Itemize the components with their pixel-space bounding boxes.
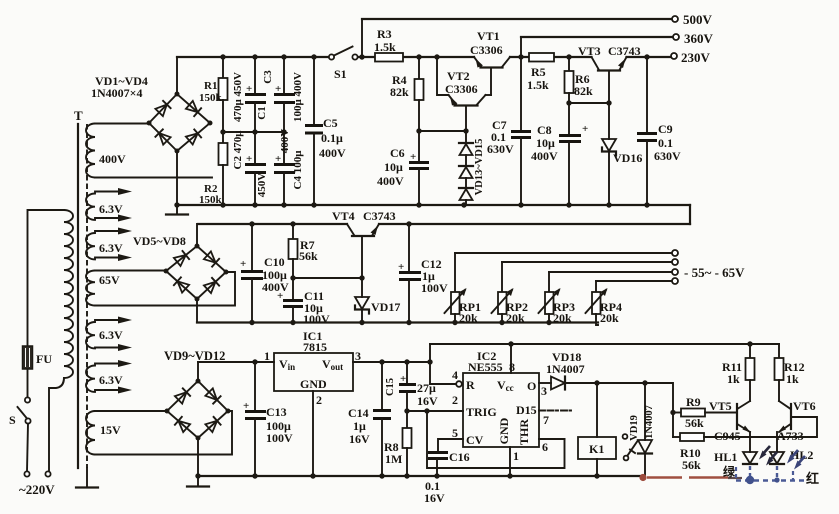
svg-text:C3306: C3306 (470, 43, 503, 57)
svg-text:6.3V: 6.3V (99, 328, 123, 342)
svg-text:+: + (400, 373, 406, 385)
svg-text:400V: 400V (377, 174, 404, 188)
wire bridge2 bottom to mid rail (196, 299, 198, 323)
svg-text:20k: 20k (553, 311, 572, 325)
bias output terminals (672, 250, 678, 284)
svg-text:1M: 1M (385, 452, 402, 466)
pin2 label and GND lead (313, 391, 322, 476)
svg-text:绿: 绿 (723, 464, 736, 479)
capacitor C11 10u100V (277, 278, 330, 326)
pin6 stub (539, 439, 565, 454)
svg-text:150k: 150k (199, 194, 223, 206)
svg-text:C10: C10 (264, 255, 285, 269)
mid tie rail (220, 129, 286, 134)
switch S1 (329, 47, 358, 82)
wire bridge top to HT rail (176, 57, 178, 94)
pin3 label (355, 349, 361, 363)
svg-text:7815: 7815 (303, 340, 327, 354)
resistor R3 1.5k (374, 27, 403, 62)
svg-text:1μ: 1μ (353, 419, 366, 433)
label -55~-65V (684, 265, 745, 280)
transformer core left bar (77, 124, 79, 468)
svg-text:+: + (410, 151, 416, 163)
svg-text:56k: 56k (685, 416, 704, 430)
svg-text:VT4: VT4 (332, 209, 355, 223)
potentiometer RP3 20k (539, 272, 576, 325)
winding 15V (86, 411, 232, 455)
svg-text:C14: C14 (348, 406, 369, 420)
core ground bar (76, 468, 98, 488)
pin5 CV lead (438, 426, 463, 452)
capacitor C6 10u400V (377, 131, 429, 205)
resistor R4 82k (390, 57, 424, 131)
resistor R5 1.5k (527, 53, 554, 92)
ground (bottom section) (187, 476, 209, 487)
HT rail y57 (177, 56, 671, 58)
base bias wire R6-VT3 (566, 100, 611, 105)
mains terminal right (45, 471, 50, 476)
svg-text:C6: C6 (390, 146, 405, 160)
svg-text:VT1: VT1 (477, 29, 500, 43)
transistor VT4 C3743 (332, 209, 396, 278)
360V rail riser (520, 37, 522, 57)
red character green label (723, 464, 736, 479)
svg-text:- 55~ - 65V: - 55~ - 65V (684, 265, 745, 280)
winding 65V (86, 271, 235, 306)
pin8 lead (509, 344, 515, 374)
capacitor C12 1u100V (398, 224, 448, 323)
transformer T label (74, 108, 83, 123)
mid bottom rail y322.5 (197, 320, 598, 325)
bridge rectifier VD9~VD12 (165, 379, 231, 441)
svg-text:K1: K1 (589, 442, 604, 456)
mid positive rail y224 (198, 221, 690, 226)
svg-text:O: O (527, 379, 536, 393)
bridge rectifier VD5~VD8 (164, 244, 229, 302)
ground (top section) (166, 205, 188, 215)
capacitor C9 0.1 630V (637, 57, 681, 205)
svg-text:150k: 150k (199, 92, 223, 104)
svg-text:16V: 16V (424, 491, 445, 505)
svg-text:+: + (240, 258, 246, 270)
svg-text:630V: 630V (487, 142, 514, 156)
svg-text:Vin: Vin (279, 357, 295, 372)
svg-text:~220V: ~220V (19, 482, 55, 497)
wire bridge2 top riser (197, 224, 198, 246)
transistor VT1 C3306 (470, 29, 510, 95)
svg-text:+: + (275, 153, 281, 165)
svg-text:1k: 1k (727, 372, 740, 386)
svg-text:C9: C9 (658, 122, 673, 136)
negative rail y205 (177, 204, 690, 206)
svg-text:1N4007×4: 1N4007×4 (91, 86, 143, 100)
svg-text:630V: 630V (654, 149, 681, 163)
svg-text:82k: 82k (390, 85, 409, 99)
svg-text:Vcc: Vcc (497, 378, 514, 393)
terminal 230V (671, 50, 711, 65)
svg-text:450V: 450V (256, 173, 268, 198)
C1 rotated labels (232, 72, 268, 122)
wire to IC1 input (198, 359, 274, 364)
svg-text:C8: C8 (537, 123, 552, 137)
LED HL1 (714, 432, 757, 464)
svg-text:82k: 82k (574, 84, 593, 98)
svg-text:20k: 20k (506, 311, 525, 325)
winding 400V (86, 124, 212, 178)
resistor R1 150k (199, 57, 228, 132)
svg-text:400V: 400V (99, 152, 126, 166)
capacitor C2 470u450V (245, 132, 266, 205)
pin3 output label (541, 384, 547, 398)
capacitor C10 100u400V (240, 224, 289, 323)
zener VD16 (602, 103, 642, 205)
THR-TRIG link wire (427, 411, 565, 468)
label ~220V (19, 482, 55, 497)
capacitor C7 0.1 630V (487, 57, 531, 205)
wire primary top to fuse (28, 210, 65, 346)
fuse FU (23, 346, 53, 369)
RP output wires (455, 253, 672, 281)
svg-text:VT6: VT6 (793, 399, 816, 413)
svg-text:C4 100μ: C4 100μ (292, 150, 304, 190)
svg-text:VD16: VD16 (613, 151, 642, 165)
svg-text:GND: GND (497, 417, 511, 444)
red junction node (639, 474, 646, 481)
svg-text:1N4007: 1N4007 (546, 362, 585, 376)
capacitor C3 100u400V (274, 57, 295, 132)
LED light arrows HL2 (787, 450, 805, 470)
svg-text:C1: C1 (256, 106, 268, 119)
switch S (9, 397, 31, 427)
svg-text:A733: A733 (777, 429, 804, 443)
svg-text:1: 1 (513, 449, 519, 463)
svg-text:10μ: 10μ (536, 136, 555, 150)
svg-text:1.5k: 1.5k (527, 78, 549, 92)
winding 6.3V #1 (86, 188, 132, 222)
label VD5~VD8 (133, 234, 186, 248)
svg-text:100μ 400V: 100μ 400V (292, 72, 304, 122)
svg-text:+: + (246, 153, 252, 165)
svg-text:230V: 230V (681, 50, 711, 65)
wire bridge bottom to negative rail (176, 151, 178, 205)
svg-text:VD17: VD17 (371, 300, 400, 314)
svg-text:T: T (74, 108, 83, 123)
regulator IC1 7815 (274, 329, 353, 391)
bridge rectifier VD1~VD4 (147, 92, 213, 154)
svg-text:400V: 400V (262, 280, 289, 294)
svg-text:C945: C945 (714, 429, 741, 443)
svg-text:16V: 16V (349, 432, 370, 446)
wire bridge3 top riser (197, 362, 199, 381)
pin2 TRIG wire (404, 393, 463, 414)
VT2 collector loop (437, 57, 491, 95)
svg-text:VD13~VD15: VD13~VD15 (474, 139, 485, 196)
diodes VD13~VD15 (459, 131, 473, 205)
red character red label (806, 471, 819, 486)
svg-text:3: 3 (541, 384, 547, 398)
svg-text:20k: 20k (459, 311, 478, 325)
svg-text:65V: 65V (99, 273, 120, 287)
svg-text:C2 470μ: C2 470μ (232, 130, 244, 170)
svg-text:NE555: NE555 (468, 360, 503, 374)
blue dashed LED ground marks (736, 466, 806, 484)
resistor R6 82k (565, 57, 594, 103)
svg-text:6.3V: 6.3V (99, 241, 123, 255)
LED light arrows HL1 (759, 446, 777, 466)
C3 rotated labels (262, 70, 304, 122)
transistor VT6 A733 (777, 399, 816, 443)
svg-text:HL1: HL1 (714, 450, 737, 464)
svg-text:VD9~VD12: VD9~VD12 (164, 349, 225, 363)
svg-text:+: + (246, 83, 252, 95)
500V rail riser (361, 19, 363, 57)
svg-text:VD19: VD19 (629, 415, 640, 441)
svg-text:R3: R3 (377, 27, 392, 41)
500V rail (362, 18, 671, 20)
svg-text:1k: 1k (786, 372, 799, 386)
wire fuse to switch (27, 369, 29, 397)
potentiometer RP1 20k (445, 253, 482, 325)
winding 6.3V #3 (86, 317, 132, 352)
svg-text:C3743: C3743 (608, 44, 641, 58)
wire primary bottom to right terminal (49, 378, 64, 471)
svg-text:VT2: VT2 (447, 69, 470, 83)
svg-text:6.3V: 6.3V (99, 202, 123, 216)
transformer core right bar (dashed) (86, 124, 88, 468)
svg-text:+: + (398, 261, 404, 273)
svg-text:8: 8 (509, 360, 515, 374)
diode VD18 1N4007 (539, 350, 597, 390)
svg-text:400V: 400V (319, 146, 346, 160)
svg-text:7: 7 (543, 413, 549, 427)
svg-text:500V: 500V (683, 12, 713, 27)
capacitor C5 0.1u400V (305, 57, 346, 205)
svg-text:56k: 56k (682, 458, 701, 472)
svg-text:C13: C13 (266, 405, 287, 419)
capacitor C13 100u100V (243, 362, 293, 476)
svg-text:C5: C5 (323, 116, 338, 130)
svg-text:C15: C15 (385, 378, 396, 396)
svg-text:6: 6 (542, 440, 548, 454)
svg-text:S1: S1 (334, 67, 347, 81)
svg-text:GND: GND (300, 377, 327, 391)
VD13~VD15 rotated label (474, 139, 485, 196)
svg-text:470μ 450V: 470μ 450V (232, 72, 244, 122)
360V rail (521, 36, 672, 38)
terminal 360V (673, 31, 714, 46)
transistor VT3 C3743 (578, 44, 641, 103)
svg-text:S: S (9, 413, 16, 427)
primary winding coil (64, 210, 73, 378)
capacitor C8 10u400V (531, 103, 588, 205)
C4 rotated labels (279, 129, 304, 190)
svg-text:400V: 400V (279, 129, 291, 154)
svg-text:R: R (466, 378, 475, 392)
relay contact (623, 434, 638, 460)
svg-text:15V: 15V (100, 423, 121, 437)
svg-text:C3306: C3306 (445, 82, 478, 96)
label VD9~VD12 (164, 349, 225, 363)
svg-text:10μ: 10μ (384, 160, 403, 174)
svg-text:3: 3 (355, 349, 361, 363)
svg-text:56k: 56k (299, 249, 318, 263)
capacitor C16 0.1 16V (424, 450, 470, 505)
pin1 label (264, 349, 270, 363)
transistor VT2 C3306 (445, 69, 486, 131)
svg-text:1.5k: 1.5k (374, 40, 396, 54)
Vcc wire to pins 8/4 (430, 341, 779, 384)
svg-text:R5: R5 (531, 65, 546, 79)
svg-text:D15: D15 (516, 403, 537, 417)
svg-text:TRIG: TRIG (466, 405, 497, 419)
svg-text:FU: FU (36, 352, 52, 366)
svg-text:360V: 360V (684, 31, 714, 46)
+15V wire from Vout (353, 359, 433, 364)
resistor R11 1k (722, 344, 755, 401)
svg-text:+: + (243, 400, 249, 412)
zener VD17 (355, 278, 400, 323)
svg-text:1N4007: 1N4007 (644, 405, 655, 439)
svg-text:20k: 20k (600, 311, 619, 325)
terminal 500V (672, 12, 713, 27)
rails right-end link (689, 205, 691, 224)
svg-text:100V: 100V (421, 281, 448, 295)
svg-text:+: + (275, 83, 281, 95)
diode VD19 1N4007 (629, 383, 655, 477)
svg-text:R1: R1 (204, 80, 217, 92)
output node wire (594, 380, 675, 437)
pin7 stub (539, 411, 571, 428)
label VD1~VD4 1N4007x4 (91, 74, 148, 100)
node dots on rails (174, 54, 649, 207)
svg-text:+: + (277, 290, 283, 302)
svg-text:0.1: 0.1 (658, 136, 673, 150)
svg-text:6.3V: 6.3V (99, 373, 123, 387)
LED HL2 (770, 432, 813, 464)
svg-text:VT5: VT5 (709, 399, 732, 413)
svg-text:R9: R9 (686, 395, 701, 409)
red wire segment (647, 476, 742, 479)
resistor R9 56k (673, 395, 737, 430)
svg-text:4: 4 (452, 368, 458, 382)
svg-text:5: 5 (452, 426, 458, 440)
pin4 lead with bubble (430, 368, 462, 387)
svg-text:100V: 100V (303, 312, 330, 326)
resistor R8 1M (384, 411, 412, 476)
resistor R10 56k (673, 417, 817, 472)
resistor R2 150k (199, 132, 228, 206)
bias node wire R4-C6-VD13 (416, 128, 468, 133)
svg-text:CV: CV (466, 433, 484, 447)
capacitor C4 100u400V (274, 132, 295, 205)
timer IC2 NE555 (463, 349, 539, 447)
svg-text:红: 红 (806, 471, 819, 486)
resistor R12 1k (775, 344, 805, 401)
svg-text:16V: 16V (417, 394, 438, 408)
resistor R7 56k (289, 224, 319, 278)
capacitor C14 1u16V (348, 362, 391, 476)
svg-text:0.1μ: 0.1μ (321, 131, 343, 145)
capacitor C15 27u16V (385, 362, 438, 411)
svg-text:100V: 100V (266, 431, 293, 445)
wire bridge3 bottom to ground rail (197, 438, 199, 476)
base wire R7-VT4 (290, 275, 364, 280)
potentiometer RP4 20k (586, 281, 623, 325)
svg-text:C3743: C3743 (363, 209, 396, 223)
svg-text:VT3: VT3 (578, 44, 601, 58)
svg-text:1: 1 (264, 349, 270, 363)
C2 rotated labels (232, 130, 268, 197)
svg-text:VD5~VD8: VD5~VD8 (133, 234, 186, 248)
svg-text:400V: 400V (531, 149, 558, 163)
svg-text:2: 2 (316, 393, 322, 407)
svg-text:C3: C3 (262, 70, 274, 84)
capacitor C1 470u450V (245, 57, 266, 132)
winding 6.3V #4 (86, 360, 132, 394)
pin1 GND lead (510, 447, 519, 476)
potentiometer RP2 20k (492, 262, 529, 325)
wire switch to mains terminal (27, 424, 28, 472)
svg-text:THR: THR (517, 419, 531, 445)
transistor VT5 C945 (709, 399, 751, 443)
winding 6.3V #2 (86, 228, 132, 262)
svg-text:2: 2 (452, 393, 458, 407)
svg-text:Vout: Vout (322, 357, 343, 372)
bottom ground rail y476 (195, 473, 643, 478)
svg-text:+: + (582, 123, 588, 135)
relay coil K1 (578, 383, 616, 476)
svg-text:C16: C16 (449, 450, 470, 464)
mains terminal left (24, 471, 29, 476)
